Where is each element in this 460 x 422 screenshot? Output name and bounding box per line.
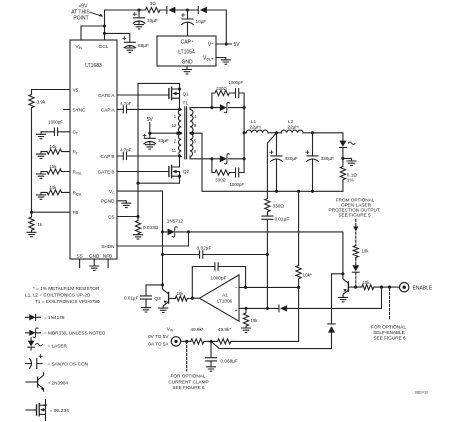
legend diode MBR330	[26, 328, 106, 338]
svg-text:SYNC: SYNC	[73, 107, 87, 112]
node laser cathode dot	[341, 157, 344, 160]
node 1N5712 cathode dot	[187, 230, 190, 233]
capacitor CAP A 4.7pF	[117, 101, 180, 113]
resistor 10k plus to ground	[242, 308, 259, 332]
svg-text:1000pF: 1000pF	[48, 119, 63, 124]
arrowhead laser protection	[353, 226, 358, 231]
connector ENABLE	[400, 283, 433, 292]
svg-text:= 2N3904: = 2N3904	[48, 381, 69, 386]
legend diode 1N4148	[26, 314, 65, 320]
node opamp output dot	[191, 297, 194, 300]
svg-text:22µH: 22µH	[287, 124, 298, 129]
node Q4 collector dot	[341, 272, 344, 275]
node enable wire dot1	[380, 286, 383, 289]
label self-enable note	[371, 324, 406, 340]
node cap2 rail dot	[311, 190, 314, 193]
capacitor snubber bottom 1000pF	[230, 159, 245, 187]
wire Q2 source to sense line	[138, 176, 180, 183]
svg-text:FOR OPTIONAL: FOR OPTIONAL	[371, 324, 406, 329]
op-amp A1 LT1006	[192, 275, 239, 321]
svg-text:12: 12	[172, 123, 177, 128]
legend capacitor OS-CON	[26, 355, 89, 369]
capacitor 33uF center	[143, 133, 169, 149]
capacitor 33uF top left	[133, 10, 158, 29]
svg-text:CAP A: CAP A	[101, 107, 116, 112]
svg-text:VOUT: VOUT	[203, 56, 214, 62]
wire secondary bottom to rectifier	[190, 156, 212, 159]
svg-text:POINT: POINT	[73, 16, 88, 22]
label current clamp note	[168, 374, 208, 391]
wire VIN to divider	[181, 340, 191, 342]
svg-text:0.02µF: 0.02µF	[197, 245, 212, 250]
legend laser	[28, 338, 68, 350]
svg-text:9: 9	[194, 123, 197, 128]
wire LT1054 V+ to 5V	[216, 43, 232, 45]
resistor 49.9k second	[211, 327, 234, 344]
label 5V	[234, 42, 241, 48]
resistor 0.033ohm	[135, 217, 158, 235]
svg-text:8: 8	[194, 149, 197, 154]
svg-text:0.033Ω: 0.033Ω	[143, 225, 159, 230]
svg-text:V5: V5	[73, 87, 79, 92]
wire top rail 9V	[105, 10, 227, 44]
node 10kstar rail dot	[297, 190, 300, 193]
svg-text:SEE FIGURE 5: SEE FIGURE 5	[338, 212, 371, 217]
wire output to laser	[313, 133, 343, 140]
svg-text:1N5712: 1N5712	[167, 219, 184, 224]
svg-text:1000pF: 1000pF	[230, 182, 245, 187]
capacitor CAP B 4.7pF	[117, 148, 180, 160]
diode rectifier bottom MBR330	[212, 154, 244, 164]
svg-text:L1, L2 = COILTRONICS UP-2B: L1, L2 = COILTRONICS UP-2B	[25, 292, 90, 297]
label figure number	[415, 391, 429, 395]
node 5V-33uF dot	[148, 132, 151, 135]
resistor 3ohm	[146, 1, 160, 12]
inductor L2 22uH	[277, 119, 313, 133]
svg-text:RCSL: RCSL	[73, 190, 83, 196]
svg-text:49.9k*: 49.9k*	[218, 327, 231, 332]
node Q2 source-body dot	[178, 175, 181, 178]
wire dashed self-enable	[389, 289, 391, 319]
legend mosfet IRLZ34	[26, 400, 69, 421]
resistor RT 14k	[37, 144, 71, 159]
svg-text:10µF: 10µF	[196, 19, 207, 24]
arrow from POINT to 9V node	[91, 12, 104, 16]
wire V5 pin to left rail	[32, 90, 71, 95]
capacitor 0.068uF	[206, 341, 238, 371]
svg-text:SEE FIGURE 6: SEE FIGURE 6	[172, 385, 205, 390]
connector VIN input	[148, 327, 181, 347]
capacitor snubber top 1000pF	[229, 80, 245, 108]
svg-text:+: +	[234, 308, 237, 314]
node plus branch dot	[266, 307, 269, 310]
node cap1 rail dot	[275, 190, 278, 193]
node V+ junction	[225, 42, 228, 45]
svg-text:T1 = COILTRONICS VP3-0780: T1 = COILTRONICS VP3-0780	[35, 299, 100, 304]
svg-text:Q3: Q3	[155, 296, 162, 301]
wire dashed 10k to diode	[355, 259, 357, 265]
svg-text:330Ω: 330Ω	[215, 178, 226, 183]
svg-text:VIN: VIN	[167, 327, 174, 333]
svg-text:4.7pF: 4.7pF	[120, 101, 131, 106]
svg-text:= 1N4148: = 1N4148	[44, 315, 65, 320]
svg-text:3Ω: 3Ω	[150, 1, 157, 6]
node 9V junction dot left	[137, 8, 140, 11]
capacitor output 330uF second	[306, 133, 334, 192]
wire plus-input branch vertical	[266, 255, 268, 309]
node divider mid dot	[209, 340, 212, 343]
wire CS pin	[117, 216, 138, 218]
resistor RVSL 15k	[37, 164, 71, 179]
svg-text:T1: T1	[183, 101, 189, 106]
svg-text:330Ω: 330Ω	[273, 204, 285, 209]
svg-text:= MBR330, UNLESS NOTED: = MBR330, UNLESS NOTED	[44, 331, 106, 336]
node sense line Q2 dot	[136, 182, 139, 185]
wire dashed laser protection arrow	[355, 220, 357, 227]
svg-text:14k: 14k	[50, 144, 58, 149]
transistor Q1 IRLZ34	[169, 83, 189, 99]
diode 1N5712	[163, 219, 189, 237]
wire GND pin	[93, 259, 95, 266]
svg-text:10k: 10k	[50, 185, 58, 190]
wire Q4 collector clamp bypass	[332, 274, 343, 324]
capacitor 0.01uF vertical	[262, 215, 289, 255]
transformer T1	[172, 101, 198, 159]
svg-text:NFB: NFB	[103, 253, 112, 258]
wire 1N5712 row to laser protection corner	[189, 232, 343, 274]
svg-text:5: 5	[194, 139, 197, 144]
svg-text:GCL: GCL	[99, 44, 109, 49]
svg-text:0.068µF: 0.068µF	[221, 359, 238, 364]
svg-text:68µF: 68µF	[138, 43, 149, 48]
svg-text:CURRENT CLAMP: CURRENT CLAMP	[168, 379, 208, 384]
ground 1k	[27, 232, 36, 236]
resistor 330ohm vertical	[265, 133, 285, 215]
node rectifier bottom B	[243, 157, 246, 160]
resistor 10kstar	[296, 191, 312, 287]
legend transistor 2N3904	[26, 373, 68, 391]
svg-text:CAP+: CAP+	[181, 39, 194, 46]
svg-text:0.01µF: 0.01µF	[124, 295, 139, 300]
svg-text:0V TO 5V: 0V TO 5V	[148, 334, 169, 339]
capacitor 0.02uF	[163, 245, 268, 258]
wire VIN pin to node	[81, 26, 105, 40]
wire dashed diode to Q4 base	[355, 273, 357, 286]
svg-text:SELF-ENABLE: SELF-ENABLE	[373, 330, 405, 335]
wire dashed to 10k	[355, 232, 357, 245]
node T1 pin11 dot	[178, 154, 181, 157]
transistor Q2 IRLZ34	[169, 156, 190, 178]
svg-text:0.1Ω: 0.1Ω	[347, 172, 358, 177]
svg-text:−: −	[234, 285, 237, 291]
capacitor 1000pF feedback	[192, 263, 245, 298]
wire NFB stub	[107, 259, 109, 268]
svg-text:GND: GND	[181, 59, 193, 65]
node FB dot	[30, 211, 33, 214]
svg-text:GATE B: GATE B	[98, 169, 115, 174]
svg-text:GATE A: GATE A	[98, 93, 115, 98]
svg-text:A1: A1	[222, 293, 228, 298]
svg-text:V+: V+	[208, 41, 214, 48]
wire 10kstar line to input divider	[234, 287, 299, 341]
laser diode	[339, 141, 355, 159]
ground 0.033ohm	[134, 235, 143, 239]
svg-text:1: 1	[174, 114, 177, 119]
ground IC GND	[90, 266, 99, 270]
svg-text:= SANYO OS-CON: = SANYO OS-CON	[48, 362, 89, 367]
svg-text:CT: CT	[73, 130, 78, 136]
svg-text:CS: CS	[108, 214, 115, 219]
diode D2 1N4148 (points left)	[198, 7, 207, 14]
node rectifier top A	[210, 106, 213, 109]
svg-text:CAP B: CAP B	[101, 154, 115, 159]
node between diodes	[186, 8, 189, 11]
wire LT1054 Vout	[216, 58, 226, 60]
node enable wire dot2	[388, 286, 391, 289]
svg-text:VC: VC	[109, 189, 115, 195]
resistor snubber top 330ohm	[212, 86, 235, 108]
svg-text:330Ω: 330Ω	[216, 86, 227, 91]
capacitor 10uF pump	[182, 10, 207, 36]
svg-text:5V: 5V	[234, 42, 241, 48]
node VC-0.02uF dot	[161, 253, 164, 256]
svg-text:= IRLZ34: = IRLZ34	[50, 408, 70, 413]
svg-text:Q2: Q2	[183, 169, 190, 174]
label legend notes	[25, 286, 100, 304]
svg-text:11: 11	[172, 148, 177, 153]
svg-text:RT: RT	[73, 150, 78, 156]
svg-text:10k: 10k	[251, 318, 259, 323]
svg-text:4.7pF: 4.7pF	[120, 148, 131, 153]
transistor Q3 2N3904	[155, 285, 176, 313]
node cap1 dot	[275, 131, 278, 134]
svg-text:4: 4	[194, 114, 197, 119]
svg-text:2: 2	[174, 139, 177, 144]
resistor 1k	[29, 212, 43, 232]
resistor 0.1ohm 1%	[340, 158, 357, 191]
svg-text:330µF: 330µF	[285, 156, 299, 161]
wire Q1 drain	[179, 98, 181, 109]
svg-text:1%: 1%	[347, 178, 354, 183]
svg-text:LT1683: LT1683	[85, 63, 102, 69]
wire left rail down to FB node	[31, 108, 33, 213]
svg-text:* = 1% METALFILM RESISTOR: * = 1% METALFILM RESISTOR	[33, 286, 100, 291]
svg-text:3.9k: 3.9k	[37, 100, 47, 105]
svg-text:0A TO 5A: 0A TO 5A	[148, 341, 169, 346]
svg-text:SHDN: SHDN	[101, 244, 114, 249]
svg-text:0.01µF: 0.01µF	[275, 217, 290, 222]
wire PGND pin	[117, 201, 126, 203]
node T1 pin1 dot	[178, 108, 181, 111]
node minus 10kstar dot	[297, 286, 300, 289]
resistor RCSL 10k	[37, 185, 71, 200]
node 0.02uF right dot	[266, 253, 269, 256]
capacitor output 330uF first	[270, 133, 298, 192]
node plus 10k dot	[244, 307, 247, 310]
node GCL-68uF dot	[103, 32, 106, 35]
node Q3 collector dot	[161, 283, 164, 286]
svg-text:10k*: 10k*	[303, 273, 313, 278]
svg-text:10k: 10k	[362, 249, 370, 254]
svg-text:L1: L1	[251, 119, 257, 124]
ground laser cathode	[343, 158, 356, 165]
wire GATE A row	[117, 94, 169, 96]
wire Q1 source to sense line	[138, 83, 180, 216]
resistor 49.9k first	[190, 327, 211, 344]
node GCL-VIN dot	[103, 24, 106, 27]
svg-text:SEE FIGURE 6: SEE FIGURE 6	[373, 335, 406, 340]
wire VC pin	[117, 191, 163, 232]
wire rectifier output vertical	[243, 108, 245, 159]
svg-text:33µF: 33µF	[158, 138, 169, 143]
wire VC line down	[162, 232, 164, 285]
svg-text:1k: 1k	[38, 222, 43, 227]
resistor 10k enable	[356, 280, 400, 290]
ground PGND	[122, 203, 131, 207]
svg-text:1683 F10: 1683 F10	[415, 391, 429, 395]
svg-text:33µF: 33µF	[147, 18, 158, 23]
wire 5V to center tap	[150, 123, 177, 134]
label 5V source	[147, 117, 154, 123]
resistor snubber bottom 330ohm	[212, 159, 235, 183]
node Q1 source-body dot	[178, 87, 181, 90]
node cap2 dot	[311, 131, 314, 134]
svg-text:LT1006: LT1006	[217, 298, 233, 303]
node T1 secondary mid tap dot	[191, 132, 194, 135]
svg-text:10k: 10k	[363, 280, 371, 285]
node L1 input dot	[243, 131, 246, 134]
node VC-1N5712 dot	[161, 230, 164, 233]
svg-text:L2: L2	[288, 119, 294, 124]
svg-text:ENABLE: ENABLE	[413, 285, 433, 291]
wire GCL line	[104, 10, 106, 40]
resistor 10k opamp to Q3	[175, 291, 192, 301]
wire minus input row	[239, 286, 299, 288]
svg-text:Q1: Q1	[183, 91, 190, 96]
svg-text:PGND: PGND	[101, 199, 115, 204]
diode rectifier top MBR330	[212, 102, 244, 112]
wire plus input row	[239, 287, 382, 308]
diode D1 1N4148 (points left)	[167, 7, 176, 14]
node VIN clamp dot	[185, 340, 188, 343]
capacitor 68uF	[105, 33, 149, 52]
svg-text:LT1054: LT1054	[178, 50, 195, 56]
svg-text:RVSL: RVSL	[73, 169, 83, 175]
node Q4 base dot	[354, 286, 357, 289]
resistor 3.9k	[29, 95, 46, 108]
wire LT1054 GND pin	[186, 66, 188, 70]
svg-text:= LASER: = LASER	[48, 344, 68, 349]
resistor 10k protection	[353, 246, 369, 259]
wire secondary top to rectifier	[190, 108, 212, 110]
node feedback minus dot	[244, 286, 247, 289]
svg-text:15k: 15k	[50, 164, 58, 169]
svg-text:FOR OPTIONAL: FOR OPTIONAL	[171, 374, 206, 379]
label 9V AT THIS POINT	[71, 4, 90, 22]
svg-text:49.9k*: 49.9k*	[190, 327, 203, 332]
label laser protection note	[328, 197, 380, 217]
svg-text:22µH: 22µH	[249, 125, 260, 130]
wire dashed current clamp	[186, 341, 188, 371]
capacitor 0.01uF Q3	[124, 285, 163, 312]
wire SYNC stub	[64, 109, 71, 111]
svg-text:10k: 10k	[177, 291, 185, 296]
wire GATE B row	[117, 171, 169, 173]
wire FB row	[32, 211, 71, 213]
diode 1N4148 plus input (points left)	[279, 305, 287, 312]
svg-text:1000pF: 1000pF	[211, 276, 227, 281]
svg-text:330µF: 330µF	[321, 156, 335, 161]
diode protection (points down)	[352, 265, 359, 272]
IC U1 LT1683	[70, 40, 117, 259]
wire SS stub	[79, 259, 81, 268]
wire SHDN pin	[117, 232, 189, 246]
transistor Q4 2N3904	[339, 274, 356, 302]
ground LT1054 Vout	[221, 60, 230, 64]
node T1 primary center tap	[176, 132, 179, 135]
svg-text:1000pF: 1000pF	[229, 80, 244, 85]
svg-text:VIN: VIN	[76, 44, 83, 50]
node CS dot	[136, 215, 139, 218]
diode clamp (points up)	[211, 324, 335, 349]
inductor L1 22uH	[244, 119, 276, 133]
node rectifier top B	[243, 106, 246, 109]
wire secondary tap to output return rail	[193, 133, 343, 191]
ground LT1054 GND	[183, 70, 192, 74]
svg-text:FB: FB	[73, 210, 79, 215]
IC U2 LT1054	[157, 36, 216, 66]
capacitor CT 1000pF	[37, 119, 71, 138]
svg-text:GND: GND	[89, 253, 100, 258]
node rectifier bottom A	[210, 157, 213, 160]
svg-text:SS: SS	[76, 253, 82, 258]
